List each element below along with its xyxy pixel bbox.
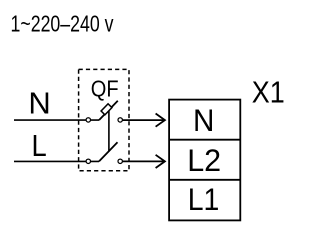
svg-text:L: L <box>32 129 47 163</box>
wire N input <box>14 119 99 121</box>
wire L input <box>14 160 99 162</box>
breaker element (rectangle on lever) <box>101 104 112 115</box>
mechanical link between poles <box>108 111 110 152</box>
breaker pole 2 left contact <box>86 159 90 163</box>
breaker pole 2 right contact <box>118 159 122 163</box>
wire from QF to terminal L2 with arrow <box>123 155 165 168</box>
svg-text:N: N <box>193 102 214 138</box>
breaker pole 1 left contact <box>86 118 90 122</box>
breaker pole 1 lever <box>99 101 118 120</box>
svg-text:1~220–240 v: 1~220–240 v <box>11 10 114 36</box>
svg-text:QF: QF <box>91 76 119 102</box>
breaker pole 1 right contact <box>118 118 122 122</box>
svg-text:L1: L1 <box>188 181 220 217</box>
circuit breaker QF boundary <box>79 69 129 170</box>
wire from QF to terminal N with arrow <box>123 114 165 127</box>
terminal block divider 2 <box>169 179 240 181</box>
svg-text:X1: X1 <box>252 74 285 109</box>
svg-text:N: N <box>28 86 50 121</box>
svg-text:L2: L2 <box>187 142 221 178</box>
terminal block X1 outline <box>169 100 240 221</box>
breaker pole 2 lever <box>99 142 118 161</box>
terminal block divider 1 <box>169 139 240 141</box>
